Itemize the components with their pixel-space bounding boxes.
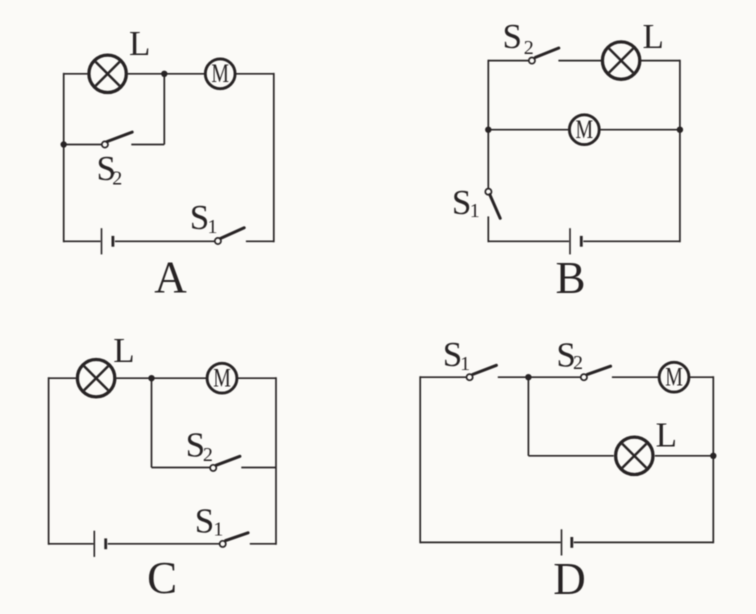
svg-text:L: L <box>643 17 664 56</box>
circuit B: wire lamp to right rail <box>641 60 680 62</box>
node: junction dot right rail/middle (circuit B) <box>677 127 683 133</box>
motor M (circuit A) <box>205 59 235 89</box>
circuit D: wire S1 to junction <box>498 376 529 378</box>
svg-text:1: 1 <box>208 216 218 238</box>
switch S2 (circuit C) <box>210 456 240 471</box>
svg-text:A: A <box>154 252 187 302</box>
circuit D: wire S2 to motor <box>612 376 659 378</box>
switch S1 (circuit C) <box>220 533 249 547</box>
svg-text:1: 1 <box>470 200 480 222</box>
circuit C: left rail wire <box>48 377 50 544</box>
label S2 (circuit D) <box>556 336 583 375</box>
circuit B: wire S2 to lamp <box>558 60 601 62</box>
svg-text:C: C <box>147 553 177 603</box>
svg-text:1: 1 <box>460 353 470 375</box>
circuit A: wire lamp to motor <box>128 73 206 75</box>
circuit C: S2 branch wire to right rail <box>241 467 276 469</box>
svg-text:S: S <box>503 17 522 56</box>
circuit A: wire S1 to right rail <box>246 240 274 242</box>
svg-text:L: L <box>113 331 134 370</box>
circuit D: bottom wire, rail to battery <box>420 541 560 543</box>
lamp L (circuit A) <box>89 55 126 92</box>
svg-text:S: S <box>452 183 471 222</box>
circuit B: wire battery to right rail <box>583 240 680 242</box>
circuit D: left rail wire <box>419 376 421 543</box>
node: junction dot lamp/motor/S2 (circuit C) <box>148 375 154 381</box>
circuit A: bottom wire, rail to battery <box>64 240 101 242</box>
circuit D: top wire, rail to S1 <box>420 376 466 378</box>
circuit C: S2 branch vertical wire <box>151 378 153 467</box>
circuit C: bottom wire, rail to battery <box>49 543 94 545</box>
svg-text:2: 2 <box>203 444 213 466</box>
svg-text:2: 2 <box>112 168 122 190</box>
circuit C: wire motor to right rail <box>237 377 276 379</box>
motor M (circuit B) <box>569 115 599 145</box>
label S2 (circuit C) <box>186 425 213 466</box>
circuit B: middle wire, left rail to motor <box>488 129 569 131</box>
circuit D: right rail wire <box>712 376 714 543</box>
node: junction dot lamp branch/right rail (circuit D) <box>710 453 716 459</box>
circuit B: left rail wire upper <box>487 60 489 189</box>
switch S1 (circuit A) <box>215 228 244 244</box>
battery (circuit A) <box>102 228 113 254</box>
battery (circuit B) <box>570 228 581 254</box>
circuit A: wire battery to S1 <box>115 240 215 242</box>
svg-text:M: M <box>576 115 594 144</box>
switch S1 (circuit D) <box>467 365 497 380</box>
circuit A: wire motor to right rail <box>235 73 274 75</box>
node: junction dot S1/S2/lamp branch (circuit D) <box>525 374 531 380</box>
circuit A: right rail wire <box>273 73 275 242</box>
circuit D: wire junction to S2 <box>528 376 580 378</box>
label S1 (circuit C) <box>195 502 224 541</box>
circuit A: S2 branch vertical wire <box>163 74 165 145</box>
node: junction dot left rail/middle (circuit B) <box>485 127 491 133</box>
label S1 (circuit B) <box>452 183 480 222</box>
lamp L (circuit B) <box>602 42 639 79</box>
svg-text:2: 2 <box>524 37 534 59</box>
switch S2 (circuit A) <box>102 132 132 147</box>
circuit D: lamp branch wire to lamp <box>528 455 613 457</box>
circuit C: top wire, rail to lamp <box>49 377 76 379</box>
switch S2 (circuit B) <box>529 48 559 64</box>
lamp L (circuit D) <box>616 437 653 474</box>
svg-text:M: M <box>665 363 683 392</box>
svg-text:B: B <box>556 253 586 303</box>
node: junction dot on left rail (circuit A) <box>61 141 67 147</box>
battery (circuit C) <box>94 531 105 557</box>
switch S1 (circuit B) <box>485 189 500 219</box>
circuit B: left rail wire lower <box>487 216 489 242</box>
svg-text:2: 2 <box>573 352 583 374</box>
circuit C: right rail wire <box>275 377 277 544</box>
svg-text:M: M <box>211 59 229 88</box>
circuit A: left rail wire <box>63 73 65 242</box>
battery (circuit D) <box>562 529 572 555</box>
circuit D: wire motor to right rail <box>689 376 714 378</box>
label S2 (circuit A) <box>97 149 123 190</box>
svg-text:L: L <box>129 24 150 63</box>
circuit B: bottom wire, rail to battery <box>488 240 569 242</box>
circuit D: lamp branch vertical wire <box>527 377 529 456</box>
svg-text:S: S <box>195 502 214 541</box>
circuit B: middle wire, motor to right rail <box>599 129 680 131</box>
circuit A: wire left rail to S2 pivot <box>64 144 102 146</box>
label S2 (circuit B) <box>503 17 534 59</box>
svg-text:S: S <box>190 198 209 237</box>
circuit A: S2 branch stub wire <box>131 144 164 146</box>
circuit A: top wire, rail to lamp <box>64 73 88 75</box>
motor M (circuit D) <box>659 362 689 392</box>
circuit C: wire battery to S1 <box>108 543 220 545</box>
circuit C: wire S1 to right rail <box>250 543 276 545</box>
motor M (circuit C) <box>207 363 237 393</box>
switch S2 (circuit D) <box>581 366 611 380</box>
label S1 (circuit A) <box>190 198 218 238</box>
circuit C: wire lamp to motor <box>116 377 207 379</box>
svg-text:M: M <box>213 364 231 393</box>
circuit B: right rail wire <box>679 60 681 243</box>
circuit B: top wire, rail to S2 <box>488 60 529 62</box>
node: junction dot lamp/motor/S2 (circuit A) <box>161 71 167 77</box>
svg-text:1: 1 <box>213 518 223 540</box>
lamp L (circuit C) <box>77 360 114 397</box>
svg-text:D: D <box>553 554 586 604</box>
circuit D: lamp branch wire to right rail <box>655 455 713 457</box>
circuit C: S2 branch wire to pivot <box>152 467 211 469</box>
circuit D: wire battery to right rail <box>574 541 714 543</box>
svg-text:L: L <box>656 416 677 455</box>
label S1 (circuit D) <box>443 335 470 375</box>
